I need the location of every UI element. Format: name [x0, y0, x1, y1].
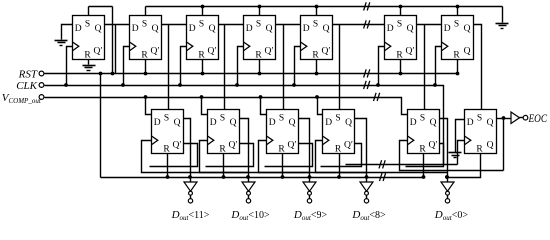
svg-text:D: D: [269, 118, 276, 128]
svg-text:R: R: [312, 51, 319, 61]
svg-text:Q′: Q′: [229, 141, 238, 151]
svg-text:D: D: [444, 24, 451, 34]
svg-text:Q: Q: [152, 24, 159, 34]
svg-text:R: R: [84, 51, 91, 61]
svg-text:Q: Q: [487, 141, 494, 151]
svg-text:S: S: [313, 20, 318, 30]
svg-text:Q′: Q′: [344, 141, 353, 151]
svg-text:EOC: EOC: [528, 111, 548, 125]
svg-text:S: S: [477, 114, 482, 124]
svg-text:Dout<9>: Dout<9>: [293, 209, 328, 222]
svg-text:S: S: [85, 20, 90, 30]
svg-text:D: D: [325, 118, 332, 128]
svg-text:S: S: [335, 114, 340, 124]
svg-text:Q: Q: [407, 24, 414, 34]
svg-text:D: D: [246, 24, 253, 34]
svg-text:D: D: [410, 118, 417, 128]
svg-text:Q: Q: [266, 24, 273, 34]
svg-text:S: S: [454, 20, 459, 30]
svg-text:R: R: [198, 51, 205, 61]
svg-text:Q′: Q′: [208, 47, 217, 57]
svg-text:Q: Q: [174, 118, 181, 128]
svg-text:Q′: Q′: [265, 47, 274, 57]
svg-text:R: R: [476, 145, 483, 155]
svg-text:R: R: [219, 145, 226, 155]
svg-text:Q: Q: [345, 118, 352, 128]
svg-text:R: R: [163, 145, 170, 155]
svg-text:Q′: Q′: [406, 47, 415, 57]
svg-text:D: D: [303, 24, 310, 34]
svg-text:R: R: [419, 145, 426, 155]
svg-text:Q: Q: [464, 24, 471, 34]
svg-text:Q′: Q′: [151, 47, 160, 57]
svg-text:S: S: [199, 20, 204, 30]
svg-text:D: D: [154, 118, 161, 128]
svg-text:Q: Q: [95, 24, 102, 34]
svg-text:S: S: [397, 20, 402, 30]
svg-text:S: S: [279, 114, 284, 124]
svg-text:Dout<10>: Dout<10>: [230, 209, 270, 222]
svg-text:D: D: [387, 24, 394, 34]
svg-text:Q: Q: [430, 118, 437, 128]
svg-text:D: D: [132, 24, 139, 34]
svg-text:S: S: [420, 114, 425, 124]
svg-text:Dout<8>: Dout<8>: [351, 209, 386, 222]
svg-text:Dout<11>: Dout<11>: [171, 209, 210, 222]
svg-text:Q: Q: [230, 118, 237, 128]
svg-text:R: R: [141, 51, 148, 61]
svg-text:S: S: [164, 114, 169, 124]
svg-text:D: D: [467, 118, 474, 128]
svg-text:R: R: [335, 145, 342, 155]
svg-text:Q′: Q′: [322, 47, 331, 57]
svg-text:Q: Q: [464, 47, 471, 57]
svg-text:S: S: [142, 20, 147, 30]
svg-text:Q′: Q′: [173, 141, 182, 151]
svg-text:R: R: [278, 145, 285, 155]
svg-text:CLK: CLK: [16, 80, 37, 92]
svg-text:Q′: Q′: [429, 141, 438, 151]
svg-text:D: D: [189, 24, 196, 34]
svg-text:COMP_out: COMP_out: [9, 97, 42, 105]
svg-text:D: D: [75, 24, 82, 34]
svg-text:RST: RST: [18, 68, 38, 80]
svg-text:S: S: [256, 20, 261, 30]
svg-text:Q: Q: [323, 24, 330, 34]
svg-text:Dout<0>: Dout<0>: [434, 209, 469, 222]
svg-text:Q: Q: [487, 118, 494, 128]
svg-text:Q: Q: [209, 24, 216, 34]
svg-text:D: D: [210, 118, 217, 128]
svg-text:S: S: [220, 114, 225, 124]
svg-text:Q′: Q′: [94, 47, 103, 57]
svg-text:R: R: [396, 51, 403, 61]
svg-text:R: R: [453, 51, 460, 61]
svg-text:R: R: [255, 51, 262, 61]
svg-text:Q: Q: [289, 118, 296, 128]
svg-text:Q′: Q′: [288, 141, 297, 151]
